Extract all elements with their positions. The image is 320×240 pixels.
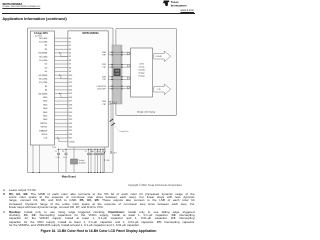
svg-text:0.1 µF: 0.1 µF xyxy=(63,157,67,159)
junction dot xyxy=(100,149,101,150)
section heading xyxy=(2,17,66,21)
svg-text:16-bpp LCD Display: 16-bpp LCD Display xyxy=(137,112,157,114)
bridge wire rows 4-5 xyxy=(60,53,68,57)
connector pin Y1M right xyxy=(121,64,122,65)
bridge wire rows 15-16 xyxy=(60,94,68,98)
ground junction dot xyxy=(91,172,92,173)
wire row 19 (GND) xyxy=(55,107,68,109)
svg-text:R5G6B5: R5G6B5 xyxy=(156,56,162,58)
wire GPU ground xyxy=(32,145,34,173)
svg-text:D5: D5 xyxy=(69,56,71,58)
svg-text:D4: D4 xyxy=(69,53,71,55)
svg-text:D23: D23 xyxy=(69,123,72,125)
wire U1 Vcc drop xyxy=(104,147,106,173)
svg-text:D17: D17 xyxy=(69,101,72,103)
svg-text:0.1 µF: 0.1 µF xyxy=(90,151,94,153)
svg-text:R4 (MSB): R4 (MSB) xyxy=(39,53,48,55)
svg-text:B4 (MSB): B4 (MSB) xyxy=(39,93,48,95)
capacitor at x98 xyxy=(97,149,99,153)
svg-text:Controller: Controller xyxy=(138,69,146,72)
www.ti.com xyxy=(180,9,194,12)
capacitor C4 xyxy=(94,149,96,153)
wire Y1M pair line xyxy=(108,64,130,66)
svg-text:RSVD: RSVD xyxy=(42,134,48,136)
notes block xyxy=(3,189,195,228)
svg-text:GND: GND xyxy=(43,97,48,99)
wire row 2 (R2) xyxy=(55,45,68,47)
ground junction dot xyxy=(100,172,101,173)
wire row 21 (GND) xyxy=(55,115,68,117)
svg-text:3.3 V: 3.3 V xyxy=(113,152,118,154)
wire Rpulldown to ground xyxy=(73,164,75,173)
wire row 14 (B3) xyxy=(55,89,68,91)
connector pin Y1M left xyxy=(112,64,113,65)
TI logo xyxy=(162,0,196,8)
svg-text:0.1 µF: 0.1 µF xyxy=(102,151,106,153)
LCD display outer box xyxy=(116,29,177,116)
svg-text:D15: D15 xyxy=(69,93,72,95)
receiver input stub Y0 xyxy=(128,52,131,55)
capacitor C1 xyxy=(58,149,60,153)
bridge junction dot row 10 xyxy=(59,75,60,76)
connector pin Y0M left xyxy=(112,52,113,53)
receiver input stub Y1 xyxy=(128,64,131,67)
connector pin Y0M right xyxy=(121,52,122,53)
wire row 11 (B0) xyxy=(55,78,68,80)
ground junction dot xyxy=(88,172,89,173)
svg-text:D16: D16 xyxy=(69,97,72,99)
wire Y0P pair line xyxy=(108,54,130,56)
svg-text:D25: D25 xyxy=(69,130,72,132)
wire GPU Vcc xyxy=(39,145,41,173)
wire row 20 (GND) xyxy=(55,111,68,113)
wire row 22 (GND) xyxy=(55,119,68,121)
junction dot xyxy=(95,149,96,150)
svg-text:SN75LVDS83A: SN75LVDS83A xyxy=(82,32,99,35)
svg-text:D21: D21 xyxy=(69,116,72,118)
svg-text:D10: D10 xyxy=(69,75,72,77)
svg-text:D18: D18 xyxy=(69,104,72,106)
connector pin Y1P right xyxy=(121,67,122,68)
receiver input stub CLKOUT xyxy=(128,86,131,89)
wire row 1 (R1) xyxy=(55,41,68,43)
capacitor at x103 xyxy=(102,149,104,153)
svg-text:LVDS: LVDS xyxy=(139,64,144,66)
svg-text:13-bpp GPU: 13-bpp GPU xyxy=(34,32,48,35)
bridge junction dot row 27 xyxy=(57,138,58,139)
cable band inner edge left xyxy=(112,45,114,104)
svg-text:Y3M: Y3M xyxy=(102,101,106,103)
svg-text:D26: D26 xyxy=(69,134,72,136)
callout leader line xyxy=(113,124,119,130)
wire row 8 (G3) xyxy=(55,67,68,69)
connector pin CLKOUTP right xyxy=(121,88,122,89)
wire CLKOUTM pair line xyxy=(108,85,130,87)
GPU ground dot xyxy=(33,172,34,173)
wire row 12 (B1) xyxy=(55,82,68,84)
svg-text:D1: D1 xyxy=(69,42,71,44)
svg-text:G1 (LSB): G1 (LSB) xyxy=(39,60,48,62)
svg-text:D19: D19 xyxy=(69,108,72,110)
wire row 18 (GND) xyxy=(55,104,68,106)
bridge junction dot row 15 xyxy=(59,93,60,94)
svg-text:VSYNC: VSYNC xyxy=(40,127,47,129)
svg-text:CLKOUTP: CLKOUTP xyxy=(97,89,107,91)
svg-text:0.1 µF: 0.1 µF xyxy=(97,151,101,153)
svg-text:Rpullup /: Rpullup / xyxy=(79,160,86,162)
svg-text:R1 (LSB): R1 (LSB) xyxy=(39,42,48,44)
svg-text:(8-bpp/: (8-bpp/ xyxy=(139,73,145,75)
wire row 15 (B4) xyxy=(55,93,68,95)
wire row 10 (G5) xyxy=(55,74,68,76)
receiver input stub Y2 xyxy=(128,77,131,80)
terminal circle 3.3V xyxy=(110,152,112,154)
wire display power line xyxy=(110,104,112,152)
twisted pair slash 2 xyxy=(111,123,115,126)
wire row 24 (VSYNC) xyxy=(55,126,68,128)
svg-text:D20: D20 xyxy=(69,112,72,114)
cable bottom connector right xyxy=(114,101,116,103)
connector pin CLKOUTP left xyxy=(112,88,113,89)
resistor Rpulldown box xyxy=(71,159,78,164)
wire chip to Rpulldown xyxy=(73,147,75,159)
connector pin Y2P right xyxy=(121,79,122,80)
connector pin Y0P left xyxy=(112,54,113,55)
svg-text:0.1 µF: 0.1 µF xyxy=(56,157,60,159)
capacitor C5 xyxy=(100,149,102,153)
svg-text:B0 (LSB): B0 (LSB) xyxy=(39,79,47,81)
wire row 6 (G1) xyxy=(55,59,68,61)
capacitor C3 xyxy=(88,149,90,153)
connector pin Y1P left xyxy=(112,67,113,68)
wire row 25 (ENABLE) xyxy=(55,130,68,132)
svg-text:C1: C1 xyxy=(55,151,57,153)
junction dot xyxy=(103,149,104,150)
header part number xyxy=(2,2,22,6)
wire row 0 (R0) xyxy=(55,37,68,39)
svg-text:Driving: Driving xyxy=(139,67,145,69)
block arrow control xyxy=(154,84,171,95)
svg-text:D22: D22 xyxy=(69,119,72,121)
wire Y3M NC stub xyxy=(108,100,111,102)
supply rail xyxy=(57,148,106,150)
wire Y0M pair line xyxy=(108,51,130,53)
svg-text:GND: GND xyxy=(43,116,48,118)
svg-text:Rpulldown: Rpulldown xyxy=(79,162,87,164)
twisted pair slash 1 xyxy=(110,119,114,122)
svg-text:D24: D24 xyxy=(69,127,72,129)
ground junction dot xyxy=(95,172,96,173)
svg-text:GND: GND xyxy=(43,101,48,103)
svg-text:D3: D3 xyxy=(69,49,71,51)
transmitter U1 box xyxy=(68,31,108,147)
capacitor at x91 xyxy=(90,149,92,153)
wire row 17 (GND) xyxy=(55,100,68,102)
svg-text:C3: C3 xyxy=(85,151,87,153)
connector pin CLKOUTM left xyxy=(112,86,113,87)
svg-text:D27: D27 xyxy=(69,138,72,140)
bridge junction dot row 4 xyxy=(59,52,60,53)
svg-text:Main Board: Main Board xyxy=(62,174,77,178)
svg-text:GND: GND xyxy=(43,112,48,114)
wire row 23 (HSYNC) xyxy=(55,122,68,124)
svg-text:D2: D2 xyxy=(69,45,71,47)
svg-text:CLKIN: CLKIN xyxy=(69,141,75,143)
svg-text:D9: D9 xyxy=(69,71,71,73)
svg-text:D6: D6 xyxy=(69,60,71,62)
ground junction dot xyxy=(97,172,98,173)
cable band inner edge right xyxy=(120,45,122,104)
svg-text:CLK: CLK xyxy=(43,138,48,140)
svg-text:R0 (LSB): R0 (LSB) xyxy=(39,38,48,40)
connector pin Y2M right xyxy=(121,76,122,77)
svg-text:16-bpp): 16-bpp) xyxy=(138,76,145,78)
junction dot xyxy=(88,149,89,150)
svg-text:D11: D11 xyxy=(69,79,72,81)
header rule xyxy=(2,12,194,15)
junction dot xyxy=(58,149,59,150)
svg-text:B1 (LSB): B1 (LSB) xyxy=(39,82,47,84)
wire Y2M pair line xyxy=(108,76,130,78)
cable label box xyxy=(114,69,121,76)
block arrow RGB data xyxy=(154,51,171,62)
GPU box xyxy=(30,31,54,145)
svg-text:D14: D14 xyxy=(69,90,72,92)
wire row 16 (GND) xyxy=(55,96,68,98)
cable bottom connector left xyxy=(110,101,112,103)
svg-text:D8: D8 xyxy=(69,67,71,69)
svg-text:D12: D12 xyxy=(69,82,72,84)
figure copyright xyxy=(128,184,181,187)
wire row 7 (G2) xyxy=(55,63,68,65)
wire row 9 (G4) xyxy=(55,70,68,72)
wire Y2P pair line xyxy=(108,78,130,80)
connector pin Y2P left xyxy=(112,79,113,80)
svg-text:CTRL: CTRL xyxy=(157,89,161,91)
wire Y3P NC stub xyxy=(108,103,111,105)
junction dot Vcc 1 xyxy=(104,152,105,153)
wire row 5 (G0) xyxy=(55,56,68,58)
connector pin Y0P right xyxy=(121,54,122,55)
wire Y1P pair line xyxy=(108,66,130,68)
junction dot Vcc 2 xyxy=(104,160,105,161)
wire row 4 (R4) xyxy=(55,52,68,54)
svg-text:GND: GND xyxy=(43,104,48,106)
connector pin CLKOUTM right xyxy=(121,86,122,87)
svg-text:ENABLE: ENABLE xyxy=(39,129,48,132)
GPU Vcc dot xyxy=(39,172,40,173)
svg-text:GND: GND xyxy=(43,119,48,121)
capacitor C2 xyxy=(65,149,67,153)
wire row 27 (CLK) xyxy=(55,137,68,139)
header doc line xyxy=(2,7,40,8)
wire CLKOUTP pair line xyxy=(108,88,130,90)
svg-text:D13: D13 xyxy=(69,86,72,88)
junction dot xyxy=(66,149,67,150)
wire row 3 (R3) xyxy=(55,48,68,50)
bridge wire rows 10-11 xyxy=(60,75,68,79)
LVDS cable band xyxy=(112,45,122,104)
svg-text:HSYNC: HSYNC xyxy=(40,123,48,125)
svg-text:D7: D7 xyxy=(69,64,71,66)
svg-text:Twisted Pair: Twisted Pair xyxy=(119,130,129,133)
main board box xyxy=(27,28,113,173)
bridge wire rows 27-28 xyxy=(58,138,68,142)
figure caption xyxy=(0,229,197,233)
wire row 26 (RSVD) xyxy=(55,133,68,135)
svg-text:G5 (MSB): G5 (MSB) xyxy=(38,75,47,77)
svg-text:GND: GND xyxy=(43,108,48,110)
wire row 13 (B2) xyxy=(55,85,68,87)
connector pin Y2M left xyxy=(112,76,113,77)
svg-text:Cable: Cable xyxy=(115,74,119,76)
svg-text:C2: C2 xyxy=(62,151,64,153)
junction dot xyxy=(97,149,98,150)
junction dot xyxy=(91,149,92,150)
svg-text:D0: D0 xyxy=(69,38,71,40)
svg-text:G0 (LSB): G0 (LSB) xyxy=(39,56,48,58)
LCD interface controller box xyxy=(131,48,153,97)
ground junction dot xyxy=(103,172,104,173)
